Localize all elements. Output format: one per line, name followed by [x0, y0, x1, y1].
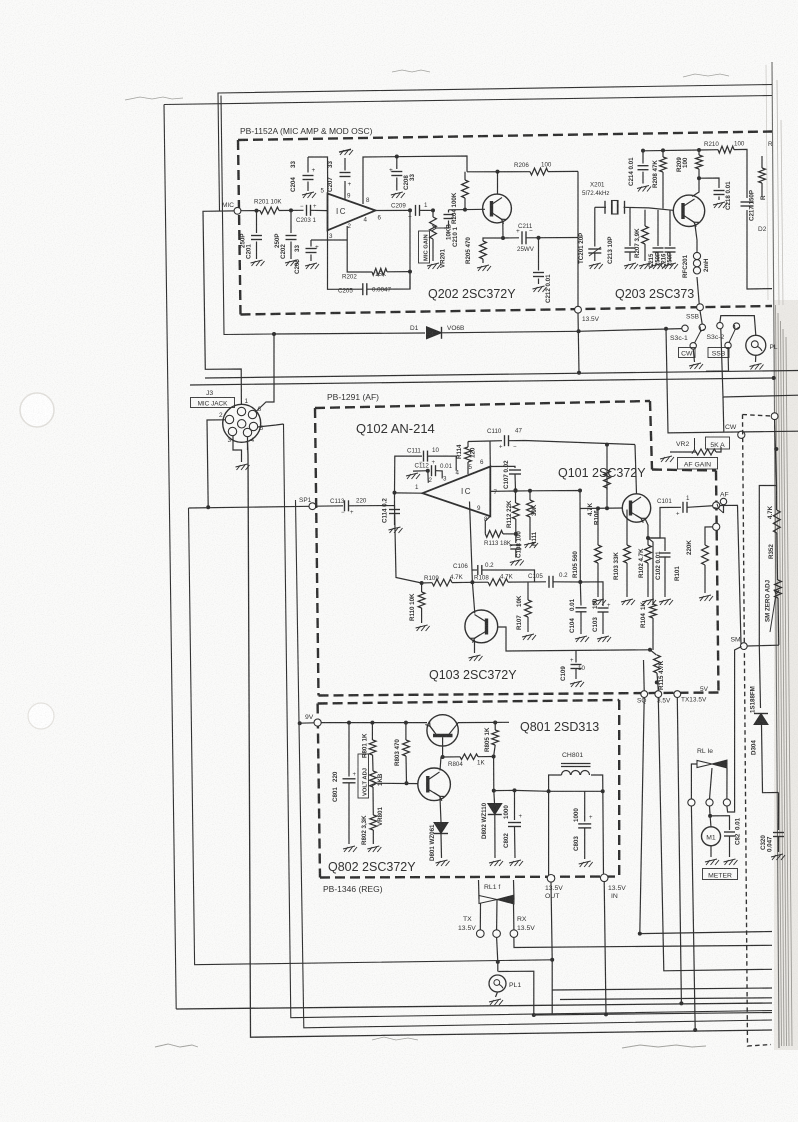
wire TX13.5V down: [677, 698, 681, 1004]
wire input to apex: [395, 492, 423, 494]
wire V4 bus: [284, 424, 773, 1018]
wire Q802 collector up: [440, 757, 441, 771]
ground C102: [659, 599, 671, 602]
transistor Q101 2SC372Y: [622, 494, 650, 522]
ground C213: [624, 263, 636, 266]
terminal TX 13.5V: [477, 930, 485, 938]
terminal RX 13.5V: [510, 930, 518, 938]
ground C802: [509, 860, 521, 863]
jack pin 5: [249, 422, 257, 430]
ground J3: [236, 464, 248, 467]
wire bottom bus 987: [552, 988, 772, 990]
capacitor C208 33 electrolytic: [396, 157, 398, 170]
wire contact-3 down: [721, 329, 798, 397]
ground R105: [592, 599, 604, 602]
wire AF node branches: [723, 505, 725, 513]
ground VR201: [427, 263, 439, 266]
node TX13.5V: [674, 691, 681, 698]
wire pin2 feedback: [347, 226, 372, 272]
ground R111: [524, 542, 536, 545]
ground PL1: [496, 992, 498, 997]
wire S3c-2 pole down: [706, 349, 729, 372]
wire CH801 right leg: [591, 775, 604, 878]
jack pin 1: [237, 407, 245, 415]
ground C803: [579, 861, 591, 864]
wire RL1f stubs to terminals: [479, 904, 481, 930]
wire output from apex: [376, 209, 411, 211]
ground C103: [597, 636, 609, 639]
wire PL loop to S3c-2 contact: [720, 316, 756, 336]
op-amp IC Q102 (points left): [423, 467, 491, 517]
wire AF to SM riser: [720, 505, 741, 644]
ground TC201: [589, 263, 601, 266]
wire 13.5V IN down: [604, 882, 606, 1015]
ground Q103: [469, 655, 481, 658]
wire R209 to Q203 collector: [692, 178, 699, 196]
wire pin9: [344, 181, 346, 200]
ground C202: [285, 260, 297, 263]
ground D801: [436, 860, 448, 863]
wire V1 left bus: [164, 105, 176, 1010]
capacitor C203 1: [306, 205, 308, 216]
ground C204: [302, 192, 314, 195]
page right edge band: [774, 300, 798, 1050]
wire SQ down: [640, 698, 644, 934]
ground R207: [639, 263, 651, 266]
wire PL1 jog to bus: [498, 971, 534, 1015]
label CW boxed: [679, 348, 696, 358]
wire 13.5V node down: [578, 313, 579, 373]
ground R110: [416, 625, 428, 628]
wire 13.5V drop from R206: [577, 171, 579, 309]
ground C212: [533, 286, 545, 289]
ground M1: [705, 859, 717, 862]
terminal RL1e mid: [706, 799, 713, 806]
connector J3 jack body: [223, 404, 261, 442]
pencil mark bottom-right: [622, 1045, 706, 1048]
label METER boxed: [703, 869, 738, 880]
jack pin 2: [225, 415, 233, 423]
wire 9V rail: [321, 722, 427, 724]
wire SQ stub up: [643, 660, 646, 691]
wire V2 bus (SP return): [189, 508, 553, 965]
transistor Q103 2SC372Y: [465, 610, 498, 643]
wire Q103 base line: [498, 627, 651, 651]
ground C114: [389, 527, 401, 530]
wire Q802 base: [382, 782, 418, 784]
jack pin 6: [248, 410, 256, 418]
wire 3.5V down: [658, 698, 772, 971]
wire top frame line 2 / V-221 bus: [164, 96, 772, 105]
ground C82: [724, 859, 736, 862]
wire long bus y379: [190, 378, 774, 385]
wire loop left of R352: [759, 486, 776, 646]
ground C108: [510, 560, 522, 563]
wire pin9 down to R108 junction: [470, 502, 473, 583]
wire pin2 riser: [427, 471, 430, 483]
jack pin 3: [228, 427, 236, 435]
ground C208: [391, 192, 403, 195]
wire bottom bus 1015: [534, 1013, 772, 1016]
meter M1: [702, 827, 721, 846]
jack pin center: [238, 420, 246, 428]
terminal 13.5V IN: [600, 874, 608, 882]
wire jack pin6 diagonal: [256, 334, 275, 412]
ground R802: [367, 846, 379, 849]
transistor Q801 2SD313: [427, 715, 458, 746]
wire long bus y373: [205, 371, 798, 379]
op-amp IC Q201: [328, 194, 376, 231]
wire RL1e left down to bus: [691, 806, 695, 1030]
node 13.5V on box edge: [575, 306, 582, 313]
wire pin8 rail: [363, 156, 467, 204]
terminal RX mid: [493, 930, 501, 938]
wire MIC to left bus: [203, 211, 241, 404]
PB-1152A dashed box: [238, 132, 772, 141]
ground C218: [713, 202, 725, 205]
capacitor C202 250P: [290, 210, 292, 233]
ground C201: [251, 260, 263, 263]
pencil mark bottom-left: [155, 1044, 198, 1047]
label VOLT ADJ boxed: [358, 754, 369, 798]
capacitor C204 33 electrolytic: [307, 157, 309, 173]
wire RL1e mid to meter: [709, 806, 712, 816]
punch hole lower: [28, 703, 54, 729]
transistor Q802 2SC372Y: [418, 768, 451, 801]
wire CW riser: [666, 329, 798, 433]
wire bottom bus 999: [560, 998, 772, 1000]
ground R107: [522, 634, 534, 637]
pencil mark top-left: [125, 97, 183, 100]
ground PL: [750, 364, 762, 367]
wire Q101 collector: [635, 445, 637, 494]
wire top frame line 1: [218, 85, 772, 212]
wire SQ bottom bus: [640, 932, 772, 934]
ground R103: [621, 599, 633, 602]
ground C207 (above): [339, 149, 351, 152]
wire feedback vertical: [409, 210, 411, 289]
node 3.5V: [655, 691, 662, 698]
node AF lower: [713, 523, 720, 530]
terminal RL1e right: [723, 799, 730, 806]
wire top bias rail: [644, 149, 700, 152]
ground C104: [575, 636, 587, 639]
ground C216: [664, 263, 676, 266]
wire V221 from corner down to D1 line: [221, 96, 274, 335]
wire Q103 emitter to ground: [474, 640, 476, 653]
ground C214: [637, 186, 649, 189]
wire output down to C105: [530, 491, 580, 583]
capacitor C206 33 electrolytic: [311, 239, 347, 241]
wire RL1e right to SM: [727, 647, 742, 813]
wire meter to ground: [710, 846, 712, 857]
wire V3 bus: [248, 442, 773, 1037]
wire bottom bus H-b2 (from V1): [176, 1003, 772, 1009]
ground R102: [642, 599, 654, 602]
wire jack pin5 to V4: [258, 424, 284, 427]
wire pin6 loop: [489, 441, 491, 467]
ground C206: [305, 263, 317, 266]
wire C210 to Q202 base: [449, 208, 486, 211]
wire Q103 collector: [472, 582, 474, 613]
ground D802: [489, 860, 501, 863]
wire 9V to V5: [300, 722, 314, 724]
wire base line Q101: [580, 507, 623, 510]
ground C801: [343, 846, 355, 849]
terminal 13.5V OUT: [547, 875, 555, 883]
wire V5 bus (9V): [296, 500, 773, 1028]
wire Q801 collector right: [456, 722, 509, 725]
wire mid terminal down to PL1: [497, 937, 498, 971]
node SQ: [641, 691, 648, 698]
dashed CW bus vertical: [743, 415, 772, 1047]
wire input node down to R110 row: [395, 506, 422, 584]
transistor Q202 2SC372Y: [483, 194, 512, 223]
PB-1291 dashed box: [315, 401, 650, 408]
wire SP to V2: [189, 506, 310, 508]
wire SM right: [747, 644, 779, 647]
lamp PL1: [489, 975, 506, 992]
wire SSB node to S3c-1: [700, 311, 702, 325]
wire PL to ground: [755, 355, 757, 362]
wire pin7 output: [490, 490, 530, 493]
capacitor C201 250P: [256, 211, 258, 233]
label SSB boxed: [708, 348, 729, 358]
wire VR2 right into box: [716, 447, 721, 452]
dashed CW bus corner: [743, 415, 772, 417]
pencil mark top-mid: [392, 70, 430, 72]
pencil mark top-right: [683, 74, 729, 77]
potentiometer VR201 10KB MIC GAIN: [431, 208, 435, 212]
wire C802 rail to CH801: [515, 789, 603, 792]
node SSB on box edge: [697, 304, 704, 311]
wire RX right line: [514, 937, 772, 947]
PB-1346 dashed box: [318, 700, 620, 704]
wire jack pin2 stub: [207, 420, 226, 507]
ground R101: [699, 595, 711, 598]
ground C112 left: [413, 470, 428, 472]
punch hole upper: [20, 393, 54, 427]
wire Q202 collector: [497, 172, 499, 195]
node on right edge line: [771, 413, 778, 420]
ground R205: [477, 265, 489, 268]
wire 13.5V OUT down: [551, 882, 552, 1015]
wire pin5 rail: [308, 157, 328, 194]
wire Q202 emitter chain: [502, 221, 504, 239]
terminal RL1e left: [688, 799, 695, 806]
wire CH801 left leg: [549, 775, 562, 878]
wire Q801 base down: [442, 737, 444, 757]
wire jack pins 3-4 to ground: [233, 436, 242, 463]
pencil mark bottom-mid: [372, 1037, 418, 1040]
capacitor C207 33 electrolytic: [340, 172, 351, 174]
wire right edge line down: [775, 420, 777, 486]
ground C215: [652, 263, 664, 266]
transistor Q203 2SC373: [673, 195, 704, 226]
ground S3c-1 pole: [693, 349, 694, 362]
capacitor C210 1: [444, 221, 449, 229]
jack pin 4: [243, 428, 251, 436]
ground C109: [570, 681, 582, 684]
wire Q101 emitter: [645, 519, 648, 539]
